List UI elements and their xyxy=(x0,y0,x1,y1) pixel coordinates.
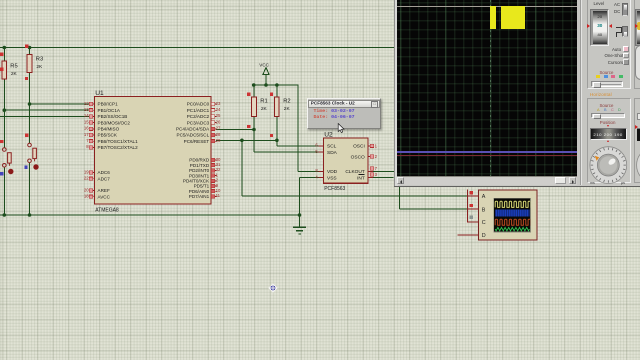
pin 18 AVCC (U1 left) xyxy=(84,194,111,200)
wire PB2 (pin 14) from left edge xyxy=(0,115,89,117)
oscilloscope popup window xyxy=(394,0,640,187)
pin 7 CLKOUT (U2 right) xyxy=(345,166,377,175)
scope trace channel C (red) xyxy=(397,155,577,156)
scope panel: adjacent section sliver xyxy=(634,0,640,89)
RTC U2 PCF8563 body xyxy=(324,132,369,192)
pin 12 PB0/ICP1 (U1 left) xyxy=(84,101,118,107)
junction SCL/scope-A tap xyxy=(240,139,244,143)
svg-text:PC0/ADC0: PC0/ADC0 xyxy=(187,102,210,107)
wire R5 column (pull-up to button 1) xyxy=(3,48,5,216)
pin 16 PB4/MISO (U1 left) xyxy=(84,126,120,132)
svg-text:PB7/TOSC2/XTAL2: PB7/TOSC2/XTAL2 xyxy=(98,145,139,150)
wire VCC down to U2 VDD xyxy=(298,85,319,171)
svg-text:VSS: VSS xyxy=(327,175,337,181)
pin 29 PC6/RESET (U1 right) xyxy=(184,138,221,144)
state square button1 bottom xyxy=(0,172,3,175)
svg-text:2K: 2K xyxy=(36,64,43,70)
svg-text:D: D xyxy=(482,233,486,239)
svg-text:2K: 2K xyxy=(261,106,268,112)
junction R2/VCC rail xyxy=(275,83,279,87)
state square scope C xyxy=(470,216,473,219)
scope trace channel B (blue) xyxy=(397,151,577,152)
scope panel: horizontal section xyxy=(590,92,612,97)
state square R1 bottom xyxy=(247,125,250,128)
state square R5 top xyxy=(0,53,3,56)
svg-text:A: A xyxy=(482,194,486,200)
state square scope A xyxy=(470,191,473,194)
push button 2 xyxy=(28,143,39,170)
svg-text:28: 28 xyxy=(216,132,221,137)
svg-text:8: 8 xyxy=(315,168,318,173)
oscilloscope input pin D xyxy=(458,233,486,239)
state square button2 bottom xyxy=(24,166,27,169)
scope trigger position dotted line xyxy=(490,0,491,176)
svg-text:SDA: SDA xyxy=(327,150,338,156)
svg-text:16: 16 xyxy=(84,126,89,131)
svg-text:U2: U2 xyxy=(324,132,333,139)
pin 28 PC5/ADC5/SCL (U1 right) xyxy=(177,132,221,138)
svg-text:ADC6: ADC6 xyxy=(98,170,111,175)
svg-text:B: B xyxy=(482,207,486,213)
pin 25 PC2/ADC2 (U1 right) xyxy=(187,113,221,119)
svg-text:VDD: VDD xyxy=(327,169,338,175)
svg-text:25: 25 xyxy=(216,113,221,118)
svg-text:PC5/ADC5/SCL: PC5/ADC5/SCL xyxy=(177,133,210,138)
junction R2/SCL xyxy=(275,139,279,143)
scope trace channel A yellow pulse 1 xyxy=(490,6,496,30)
pin 6 SCL (U2 left) xyxy=(315,143,336,150)
svg-text:PB1/OC1A: PB1/OC1A xyxy=(98,108,121,113)
svg-text:22: 22 xyxy=(84,176,89,181)
oscilloscope input pin B xyxy=(467,207,486,213)
svg-text:OSCI: OSCI xyxy=(353,144,365,150)
svg-text:ms: ms xyxy=(590,181,595,185)
scope trace channel A yellow pulse 2 xyxy=(501,6,525,29)
svg-text:26: 26 xyxy=(216,119,221,124)
svg-text:R1: R1 xyxy=(260,98,267,104)
pin 20 AREF (U1 left) xyxy=(84,187,110,193)
svg-text:7: 7 xyxy=(86,138,89,143)
wire R3 column (pull-up to button 2) xyxy=(29,48,31,216)
wire VCC top rail xyxy=(0,47,394,49)
svg-text:PCF8563: PCF8563 xyxy=(324,186,345,192)
PCF8563 clock popup window xyxy=(307,98,382,129)
svg-text:13: 13 xyxy=(84,107,89,112)
wire to oscilloscope channel B xyxy=(400,186,468,210)
svg-text:20: 20 xyxy=(84,187,89,192)
junction R3/VCC xyxy=(28,46,32,50)
oscilloscope instrument body xyxy=(479,190,537,240)
svg-text:12: 12 xyxy=(84,101,89,106)
state square scope B xyxy=(470,204,473,207)
junction R1/VCC rail xyxy=(252,83,256,87)
pin 24 PC1/ADC1 (U1 right) xyxy=(187,107,221,113)
mouse cursor xyxy=(336,123,346,134)
pin 19 ADC6 (U1 left) xyxy=(84,169,110,175)
pin 26 PC3/ADC3 (U1 right) xyxy=(187,119,221,125)
svg-text:ATMEGA8: ATMEGA8 xyxy=(95,208,119,214)
state square R1 top xyxy=(247,93,250,96)
wire U2 INT to oscilloscope (behind scope window) xyxy=(373,177,394,179)
svg-text:VCC: VCC xyxy=(259,62,269,67)
svg-text:PB0/ICP1: PB0/ICP1 xyxy=(98,102,119,107)
svg-text:2K: 2K xyxy=(284,106,291,112)
svg-text:PB5/SCK: PB5/SCK xyxy=(98,133,118,138)
state square button2 top xyxy=(25,134,28,137)
pin 7 PB6/TOSC1/XTAL1 (U1 left) xyxy=(86,138,138,144)
state square R3 bottom xyxy=(25,77,28,80)
svg-text:PB6/TOSC1/XTAL1: PB6/TOSC1/XTAL1 xyxy=(98,139,139,144)
push button 1 (left column) xyxy=(3,148,14,175)
resistor R1 2K xyxy=(252,97,268,117)
resistor R5 2K xyxy=(2,61,18,79)
junction R3/PB0 wire xyxy=(28,102,32,106)
origin marker xyxy=(268,283,278,293)
svg-text:18: 18 xyxy=(84,194,89,199)
wire U2 CLKOUT to oscilloscope (behind scope window) xyxy=(373,170,394,172)
svg-text:PC3/ADC3: PC3/ADC3 xyxy=(187,120,210,125)
wire SDA net: MCU PC4 to R1 to U2 SDA xyxy=(216,130,319,153)
svg-text:µs: µs xyxy=(621,181,625,185)
wire U2 VSS to ground xyxy=(300,178,319,227)
svg-text:PD7/AIN1: PD7/AIN1 xyxy=(189,194,210,199)
junction R5/VCC xyxy=(3,46,7,50)
resistor R3 2K xyxy=(27,55,43,73)
svg-text:1: 1 xyxy=(375,143,378,148)
svg-text:INT: INT xyxy=(357,175,365,181)
power symbol VCC xyxy=(259,62,269,74)
svg-text:R5: R5 xyxy=(10,64,17,70)
svg-text:OSCO: OSCO xyxy=(351,154,365,160)
svg-text:4: 4 xyxy=(315,174,318,179)
pin 13 PB1/OC1A (U1 left) xyxy=(84,107,121,113)
wire VCC rail above R1 R2 xyxy=(254,75,299,86)
svg-text:27: 27 xyxy=(216,126,221,131)
svg-text:AREF: AREF xyxy=(98,188,110,193)
pin 3 INT (U2 right) xyxy=(357,172,378,181)
pin 32 PD2/INT0 (U1 right) xyxy=(189,167,221,173)
wire PB0 (pin 12) to R3 column xyxy=(30,103,90,105)
svg-text:PC4/ADC4/SDA: PC4/ADC4/SDA xyxy=(176,127,210,132)
wire (red/tagged) to oscilloscope channel C xyxy=(467,189,478,222)
pin 8 VDD (U2 left) xyxy=(315,168,337,175)
svg-text:PC1/ADC1: PC1/ADC1 xyxy=(187,108,210,113)
pin 2 PD4/T0/XCK (U1 right) xyxy=(183,178,219,184)
svg-text:ADC7: ADC7 xyxy=(98,176,111,181)
scope panel: trigger section xyxy=(587,0,631,89)
svg-text:PB2/SS/OC1B: PB2/SS/OC1B xyxy=(98,114,128,119)
junction VSS/ground rail xyxy=(298,213,302,217)
scope trace (grey line) xyxy=(397,6,577,7)
svg-text:U1: U1 xyxy=(95,90,104,97)
ground symbol xyxy=(293,227,306,234)
state square R2 top xyxy=(270,93,273,96)
svg-text:29: 29 xyxy=(216,138,221,143)
svg-text:11: 11 xyxy=(216,193,221,198)
junction VCC arrow/rail xyxy=(264,83,268,87)
svg-text:SCL: SCL xyxy=(327,144,337,150)
svg-text:24: 24 xyxy=(216,107,221,112)
svg-text:14: 14 xyxy=(84,113,89,118)
svg-text:2K: 2K xyxy=(11,71,18,77)
svg-text:17: 17 xyxy=(84,132,89,137)
pin 30 PD0/RXD (U1 right) xyxy=(189,157,221,163)
svg-text:AVCC: AVCC xyxy=(98,194,111,199)
pin 9 PD5/T1 (U1 right) xyxy=(194,183,219,189)
pin 8 PB7/TOSC2/XTAL2 (U1 left) xyxy=(86,144,138,150)
svg-text:PB4/MISO: PB4/MISO xyxy=(98,127,120,132)
pin 14 PB2/SS/OC1B (U1 left) xyxy=(84,113,128,119)
pin 1 PD3/INT1 (U1 right) xyxy=(189,172,219,178)
svg-text:23: 23 xyxy=(216,101,221,106)
junction button2/ground rail xyxy=(28,213,32,217)
pin 5 SDA (U2 left) xyxy=(315,149,337,156)
svg-text:PC6/RESET: PC6/RESET xyxy=(184,139,210,144)
wire SCL net: MCU to R2 to U2 SCL xyxy=(216,140,319,146)
pin 17 PB5/SCK (U1 left) xyxy=(84,132,118,138)
oscilloscope mini screen xyxy=(494,198,533,232)
pin 4 VSS (U2 left) xyxy=(315,174,336,181)
svg-text:PB3/MOSI/OC2: PB3/MOSI/OC2 xyxy=(98,120,131,125)
svg-text:19: 19 xyxy=(84,169,89,174)
pin 2 OSCO (U2 right) xyxy=(351,154,378,160)
wire R2 leads xyxy=(276,85,278,140)
svg-text:6: 6 xyxy=(315,143,318,148)
pin 1 OSCI (U2 right) xyxy=(353,143,378,149)
state square left edge xyxy=(0,68,3,71)
svg-text:7: 7 xyxy=(375,166,378,171)
wire PB1 (pin 13) to R5 column xyxy=(4,109,89,111)
svg-text:R3: R3 xyxy=(36,57,43,63)
svg-text:PC2/ADC2: PC2/ADC2 xyxy=(187,114,210,119)
pin 31 PD1/TXD (U1 right) xyxy=(190,162,221,168)
state square R3 top xyxy=(25,45,28,48)
junction R5/PB1 wire xyxy=(3,108,7,112)
pin 10 PD6/AIN0 (U1 right) xyxy=(189,188,221,194)
svg-text:R2: R2 xyxy=(283,98,290,104)
MCU U1 ATMEGA8 body xyxy=(95,90,212,214)
svg-text:8: 8 xyxy=(86,144,89,149)
state square R2 bottom xyxy=(270,134,273,137)
pin 27 PC4/ADC4/SDA (U1 right) xyxy=(176,126,221,132)
svg-text:3: 3 xyxy=(375,172,378,177)
oscilloscope input pin C xyxy=(467,220,486,226)
wire to oscilloscope channel A xyxy=(242,140,467,196)
svg-text:C: C xyxy=(482,220,486,226)
ground rail wire xyxy=(0,214,300,216)
pin 15 PB3/MOSI/OC2 (U1 left) xyxy=(84,119,131,125)
pin 22 ADC7 (U1 left) xyxy=(84,176,110,182)
oscilloscope input pin A xyxy=(467,194,486,200)
svg-text:15: 15 xyxy=(84,119,89,124)
pin 23 PC0/ADC0 (U1 right) xyxy=(187,101,221,107)
svg-text:2: 2 xyxy=(375,154,378,159)
wire R1 leads xyxy=(253,85,255,130)
junction button1/ground rail xyxy=(3,213,7,217)
svg-text:5: 5 xyxy=(315,149,318,154)
state square button1 top xyxy=(0,140,3,143)
pin 11 PD7/AIN1 (U1 right) xyxy=(189,193,221,199)
junction R1/SDA xyxy=(252,128,256,132)
resistor R2 2K xyxy=(275,97,291,117)
